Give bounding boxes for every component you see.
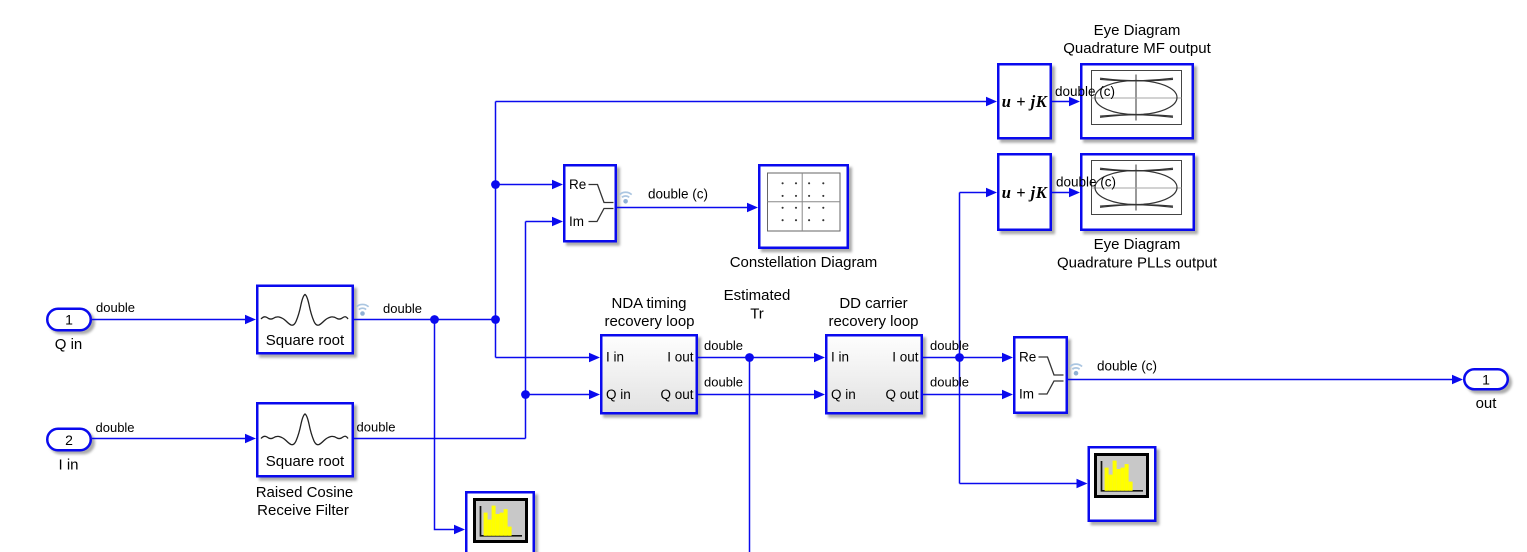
arrow into u+jK U1 (986, 97, 997, 107)
svg-text:Receive Filter: Receive Filter (257, 502, 349, 519)
arrow into NDA Q in (589, 390, 600, 400)
svg-text:double: double (96, 420, 135, 435)
block: u+jK complex gain U1 (998, 64, 1055, 142)
arrow into Spectrum Analyzer 1 (454, 525, 465, 535)
wire: vertical bus x=525.5 (Im / NDA Q in) (525, 222, 527, 439)
signal logging badge at Real-Imag 1 output (620, 192, 632, 203)
svg-text:2: 2 (65, 432, 73, 448)
junction node (959.5,357) (955, 353, 964, 362)
svg-text:I in: I in (58, 457, 78, 474)
wire: inport1 to Square root 1 (92, 319, 246, 321)
junction node (495.5,184.5) (491, 180, 500, 189)
svg-text:double: double (96, 300, 135, 315)
wire: Square root 1 output run (354, 319, 496, 321)
wire: spectrum analyzer 1 feed (435, 320, 456, 530)
block: Constellation Diagram scope (759, 165, 852, 252)
signal logging badge at Real-Imag 2 output (1070, 364, 1082, 375)
arrow into Constellation Diagram (747, 203, 758, 213)
wire: NDA Q in feed (526, 394, 591, 396)
wire: Square root 2 output run (354, 438, 526, 440)
block: Eye Diagram scope 2 (1081, 154, 1198, 234)
wire: NDA I out to DD I in (698, 357, 815, 359)
svg-text:1: 1 (65, 312, 73, 328)
arrow into Real-Imag 1 Im (552, 217, 563, 227)
svg-text:double: double (704, 338, 743, 353)
wire: DD I out to Real-Imag 2 Re (923, 357, 1003, 359)
svg-text:double: double (383, 301, 422, 316)
svg-text:I out: I out (892, 350, 919, 365)
junction node (525.5,394) (521, 390, 530, 399)
inport 2 (I in) (47, 429, 95, 454)
wire: vertical bus x=495.5 (top run / Re / NDA I in) (495, 102, 497, 358)
arrow into outport (1452, 375, 1463, 385)
svg-text:DD carrier: DD carrier (839, 295, 907, 312)
junction node (749,357) (745, 353, 754, 362)
block: Square root 1 (Raised Cosine Receive Filter Q) (257, 286, 357, 358)
wire: Real-Imag 2 out to outport (1068, 379, 1454, 381)
svg-text:I in: I in (831, 350, 849, 365)
svg-text:Quadrature MF output: Quadrature MF output (1063, 40, 1211, 57)
svg-text:NDA timing: NDA timing (611, 295, 686, 312)
outport 1 (out) (1464, 369, 1512, 393)
wire: vertical bus x=959.5 (u+jK U2 / spectrum 2) (959, 193, 961, 484)
arrow into u+jK U2 (986, 188, 997, 198)
arrow into Real-Imag 2 Im (1002, 390, 1013, 400)
svg-text:recovery loop: recovery loop (604, 313, 694, 330)
svg-text:Eye Diagram: Eye Diagram (1094, 236, 1181, 253)
svg-text:Q in: Q in (831, 387, 856, 402)
svg-text:Q in: Q in (606, 387, 631, 402)
svg-text:u + jK: u + jK (1002, 183, 1048, 202)
block: Spectrum Analyzer 1 (466, 492, 538, 552)
svg-text:u + jK: u + jK (1002, 92, 1048, 111)
block: Real-Imag to Complex 2 (1014, 337, 1071, 417)
block: Real-Imag to Complex 1 (564, 165, 620, 245)
svg-text:double (c): double (c) (1097, 359, 1157, 374)
arrow into Eye Diagram 1 (1069, 97, 1080, 107)
arrow into DD I in (814, 353, 825, 363)
svg-text:recovery loop: recovery loop (828, 313, 918, 330)
wire: inport2 to Square root 2 (92, 438, 246, 440)
arrow into Square root 2 (245, 434, 256, 444)
svg-text:double: double (930, 338, 969, 353)
wire: Estimated Tr drop (749, 358, 751, 552)
svg-text:Q out: Q out (660, 387, 693, 402)
svg-text:I in: I in (606, 350, 624, 365)
arrow into Real-Imag 1 Re (552, 180, 563, 190)
inport 1 (Q in) (47, 309, 95, 334)
svg-text:Estimated: Estimated (724, 287, 791, 304)
svg-text:double: double (930, 375, 969, 390)
arrow into Spectrum Analyzer 2 (1077, 479, 1088, 489)
wire: NDA I in feed (496, 357, 591, 359)
svg-text:Constellation Diagram: Constellation Diagram (730, 254, 878, 271)
block: Square root 2 (Raised Cosine Receive Filter I) (257, 403, 357, 480)
svg-text:I out: I out (667, 350, 694, 365)
wire: spectrum analyzer 2 feed (960, 483, 1078, 485)
wire: Im input of Real-Imag 1 (526, 221, 554, 223)
wire: DD Q out to Real-Imag 2 Im (923, 394, 1003, 396)
wire: u+jK U2 input (960, 192, 988, 194)
wire: top run to u+jK U1 (496, 101, 988, 103)
svg-text:Q out: Q out (885, 387, 918, 402)
svg-text:double (c): double (c) (648, 187, 708, 202)
svg-text:Square root: Square root (266, 332, 345, 349)
svg-text:double: double (704, 375, 743, 390)
svg-text:Tr: Tr (750, 306, 764, 323)
block: Spectrum Analyzer 2 (1089, 447, 1160, 525)
svg-text:double (c): double (c) (1056, 175, 1116, 190)
block: u+jK complex gain U2 (998, 154, 1055, 234)
wire: Real-Imag 1 out to Constellation Diagram (617, 207, 748, 209)
svg-text:double: double (357, 420, 396, 435)
svg-text:Square root: Square root (266, 453, 345, 470)
svg-text:1: 1 (1482, 372, 1490, 388)
arrow into NDA I in (589, 353, 600, 363)
junction node (495.5,318) (491, 315, 500, 324)
arrow into Real-Imag 2 Re (1002, 353, 1013, 363)
svg-text:Eye Diagram: Eye Diagram (1094, 22, 1181, 39)
svg-text:Quadrature PLLs output: Quadrature PLLs output (1057, 255, 1218, 272)
junction node (434.5,318) (430, 315, 439, 324)
block: NDA timing recovery loop subsystem (601, 335, 701, 417)
svg-text:Raised Cosine: Raised Cosine (256, 484, 354, 501)
arrow into Square root 1 (245, 315, 256, 325)
arrow into Eye Diagram 2 (1069, 188, 1080, 198)
svg-text:out: out (1476, 395, 1498, 412)
block: Eye Diagram scope 1 (1081, 64, 1197, 142)
block: DD carrier recovery loop subsystem (826, 335, 926, 417)
wire: Re input of Real-Imag 1 (496, 184, 554, 186)
wire: u+jK U2 out to Eye Diagram 2 (1052, 192, 1070, 194)
signal logging badge at Square root 1 output (356, 304, 368, 315)
svg-text:double (c): double (c) (1055, 84, 1115, 99)
wire: NDA Q out to DD Q in (698, 394, 815, 396)
svg-text:Q in: Q in (55, 336, 83, 353)
arrow into DD Q in (814, 390, 825, 400)
wire: u+jK U1 out to Eye Diagram 1 (1052, 101, 1070, 103)
